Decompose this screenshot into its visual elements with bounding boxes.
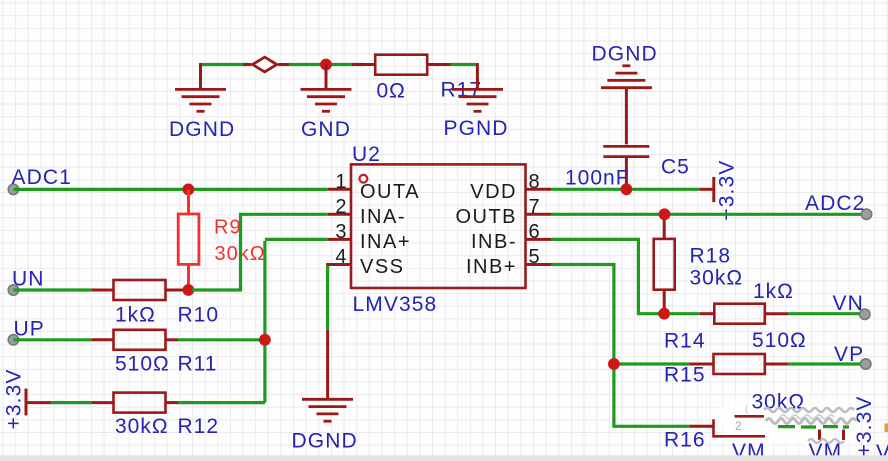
- watermark noise: [735, 404, 856, 443]
- watermark white blob: [714, 401, 856, 444]
- wire: [551, 265, 689, 427]
- resistor R12: [92, 393, 178, 413]
- resistor R10: [92, 280, 184, 300]
- svg-text:INA+: INA+: [360, 231, 411, 253]
- svg-text:7: 7: [529, 196, 542, 218]
- svg-text:ADC1: ADC1: [12, 166, 72, 189]
- pin 1 (OUTA): [328, 171, 420, 203]
- svg-text:0Ω: 0Ω: [377, 80, 406, 103]
- terminal VP: [861, 359, 871, 369]
- net tie (diamond): [243, 57, 289, 72]
- svg-text:R18: R18: [690, 245, 732, 268]
- ground PGND: [452, 63, 503, 111]
- svg-text:R9: R9: [214, 217, 242, 239]
- scrollbar: [0, 455, 888, 461]
- svg-text:5: 5: [529, 246, 542, 268]
- terminal ADC1: [8, 184, 18, 194]
- pin 3 (INA+): [328, 221, 411, 253]
- terminal UP: [8, 335, 18, 345]
- ground DGND (bottom): [302, 399, 353, 421]
- wire: [451, 63, 476, 66]
- ground DGND (inverted, above C5): [601, 66, 652, 145]
- svg-text:8: 8: [529, 171, 542, 193]
- terminal ADC2: [861, 209, 871, 219]
- junction: [320, 59, 332, 71]
- wire: [13, 338, 92, 341]
- junction: [659, 208, 671, 220]
- svg-text:R12: R12: [178, 415, 220, 438]
- wire: [13, 188, 327, 191]
- wire (VSS to DGND): [328, 265, 351, 268]
- svg-text:30kΩ: 30kΩ: [690, 267, 744, 290]
- svg-text:2: 2: [735, 419, 742, 433]
- pin 7 (OUTB): [455, 196, 551, 228]
- pin 5 (INB+): [466, 246, 551, 278]
- terminal UN: [8, 285, 18, 295]
- svg-text:100nF: 100nF: [565, 167, 630, 190]
- terminal VN: [860, 309, 870, 319]
- junction: [658, 308, 670, 320]
- svg-text:+3.3V: +3.3V: [3, 369, 26, 430]
- svg-text:6: 6: [529, 221, 542, 243]
- resistor R9 (highlighted): [178, 189, 199, 290]
- pin 6 (INB-): [471, 221, 551, 253]
- resistor R15: [689, 354, 788, 374]
- svg-text:2: 2: [335, 196, 348, 218]
- svg-text:R11: R11: [178, 353, 218, 376]
- wire: [265, 238, 328, 241]
- wire: [551, 188, 700, 191]
- svg-text:VDD: VDD: [470, 181, 517, 203]
- wire (remnants under watermark): [778, 425, 849, 429]
- power +3.3V (left): [26, 389, 52, 416]
- svg-text:PGND: PGND: [444, 117, 509, 140]
- resistor R18: [654, 214, 675, 313]
- wire: [551, 213, 861, 216]
- wire: [289, 63, 364, 66]
- svg-text:UP: UP: [14, 318, 45, 341]
- svg-text:510Ω: 510Ω: [115, 353, 170, 376]
- pin 4 (VSS): [328, 246, 405, 278]
- junction: [259, 334, 271, 346]
- resistor R14: [700, 304, 789, 324]
- svg-text:DGND: DGND: [169, 118, 235, 141]
- svg-text:R16: R16: [664, 429, 706, 452]
- svg-text:VSS: VSS: [360, 256, 405, 278]
- svg-text:R15: R15: [664, 364, 706, 387]
- svg-text:VP: VP: [834, 343, 864, 366]
- wire: [614, 362, 689, 365]
- junction: [183, 184, 195, 196]
- capacitor C5: [603, 146, 649, 190]
- svg-text:U2: U2: [352, 143, 381, 166]
- svg-text:510Ω: 510Ω: [752, 329, 807, 352]
- svg-text:3: 3: [335, 221, 348, 243]
- wire: [788, 312, 861, 315]
- svg-text:1: 1: [335, 171, 348, 193]
- svg-text:30kΩ: 30kΩ: [752, 391, 806, 414]
- op-amp U2 box: [351, 164, 526, 288]
- power +3.3V (VDD): [700, 177, 714, 202]
- wire: [788, 362, 861, 365]
- wire: [13, 288, 92, 291]
- wire: [192, 214, 328, 290]
- ground GND: [301, 65, 352, 112]
- wire: [51, 401, 92, 404]
- svg-text:DGND: DGND: [592, 43, 658, 66]
- power pin remnant: [818, 430, 821, 441]
- junction: [608, 358, 620, 370]
- resistor R17: [352, 55, 451, 75]
- svg-text:OUTA: OUTA: [360, 181, 420, 203]
- svg-text:1kΩ: 1kΩ: [753, 280, 794, 303]
- ground DGND (top left): [175, 63, 226, 111]
- svg-text:R10: R10: [178, 304, 220, 327]
- svg-text:+3.3V: +3.3V: [853, 396, 876, 457]
- svg-text:GND: GND: [301, 118, 351, 141]
- svg-text:DGND: DGND: [292, 430, 358, 453]
- wire: [326, 266, 329, 330]
- wire: [178, 338, 265, 341]
- svg-text:LMV358: LMV358: [353, 293, 438, 316]
- junction: [183, 284, 195, 296]
- svg-text:R14: R14: [664, 330, 706, 353]
- svg-text:C5: C5: [661, 156, 690, 179]
- resistor R16 (partly obscured): [689, 416, 765, 436]
- pin 2 (INA-): [328, 196, 406, 228]
- wire: [551, 239, 659, 313]
- svg-text:1kΩ: 1kΩ: [115, 304, 156, 327]
- svg-text:+3.3V: +3.3V: [716, 160, 739, 221]
- power pin (DGND): [326, 330, 329, 400]
- pin-1 indicator: [360, 175, 368, 183]
- svg-text:VN: VN: [833, 292, 864, 315]
- svg-text:INB+: INB+: [466, 256, 517, 278]
- svg-text:30kΩ: 30kΩ: [115, 415, 169, 438]
- resistor R11: [92, 330, 178, 350]
- svg-text:ADC2: ADC2: [805, 192, 865, 215]
- junction: [621, 183, 633, 195]
- wire: [201, 63, 250, 66]
- wire: [669, 312, 700, 315]
- pin 8 (VDD): [470, 171, 551, 203]
- svg-text:INB-: INB-: [471, 231, 517, 253]
- svg-text:INA-: INA-: [360, 206, 406, 228]
- orange mark at right edge: [885, 424, 888, 433]
- svg-text:OUTB: OUTB: [455, 206, 517, 228]
- svg-text:UN: UN: [12, 268, 45, 291]
- wire: [178, 401, 265, 404]
- wire: [263, 241, 266, 403]
- power pin remnant: [842, 430, 845, 441]
